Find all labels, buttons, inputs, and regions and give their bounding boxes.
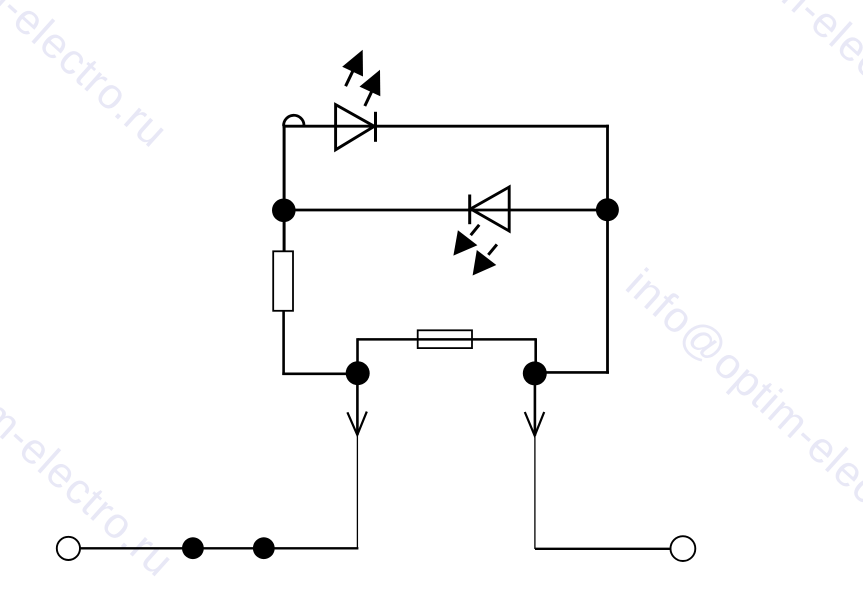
wire top horizontal xyxy=(283,125,609,128)
junction dot left-middle xyxy=(272,199,296,223)
LED D2 arrow 1 tail xyxy=(471,225,480,235)
wire hop semicircle xyxy=(284,115,304,126)
right arrowhead V xyxy=(525,412,544,436)
LED D1 triangle xyxy=(336,105,375,150)
wire below resistor xyxy=(282,311,285,375)
wire right junction to right vertical xyxy=(535,371,609,374)
junction dot bottom wire 1 xyxy=(182,537,204,559)
wire from left junction up to fuse level xyxy=(356,338,359,375)
terminal T1 open circle xyxy=(57,537,80,560)
junction dot right-middle xyxy=(596,198,619,221)
svg-text:info@optim-electro.ru: info@optim-electro.ru xyxy=(0,0,177,157)
LED D2 arrow 1 head xyxy=(453,230,477,255)
wire from fuse down to right junction xyxy=(534,338,537,375)
wire left arrow stem thin xyxy=(356,435,358,549)
wire bottom-left horizontal of upper block xyxy=(282,372,358,375)
wire left arrow stem thick xyxy=(356,373,359,435)
wire right vertical xyxy=(606,125,609,374)
resistor R1 body xyxy=(273,251,293,310)
LED D1 arrow 2 head xyxy=(360,70,381,97)
wire left vertical (top corner to resistor top) xyxy=(283,125,286,252)
wire middle horizontal xyxy=(284,209,608,212)
junction dot bottom-left xyxy=(346,361,370,385)
wire right arrow stem thin xyxy=(534,436,536,549)
wire fuse horizontal xyxy=(358,338,536,341)
LED D1 arrow 1 head xyxy=(342,50,363,77)
LED D2 triangle xyxy=(471,187,510,231)
LED D2 arrow 2 tail xyxy=(488,244,497,254)
LED D1 arrow 2 tail xyxy=(365,90,373,106)
junction dot bottom-right xyxy=(523,361,547,385)
junction dot bottom wire 2 xyxy=(253,537,275,559)
LED D2 arrow 2 head xyxy=(473,250,497,276)
terminal T2 open circle xyxy=(671,536,696,561)
LED D1 arrow 1 tail xyxy=(346,70,354,86)
fuse F1 body xyxy=(418,330,472,348)
LED D1 cathode bar xyxy=(374,112,377,142)
wire bottom-right horizontal xyxy=(535,548,671,550)
svg-text:info@optim-electro.ru: info@optim-electro.ru xyxy=(0,261,183,586)
wire right arrow stem thick xyxy=(534,373,537,435)
svg-text:info@optim-electro.ru: info@optim-electro.ru xyxy=(621,0,863,160)
svg-text:info@optim-electro.ru: info@optim-electro.ru xyxy=(617,260,863,585)
left arrowhead V xyxy=(347,412,366,435)
wire bottom-left horizontal xyxy=(80,547,358,549)
LED D2 cathode bar xyxy=(468,195,471,225)
